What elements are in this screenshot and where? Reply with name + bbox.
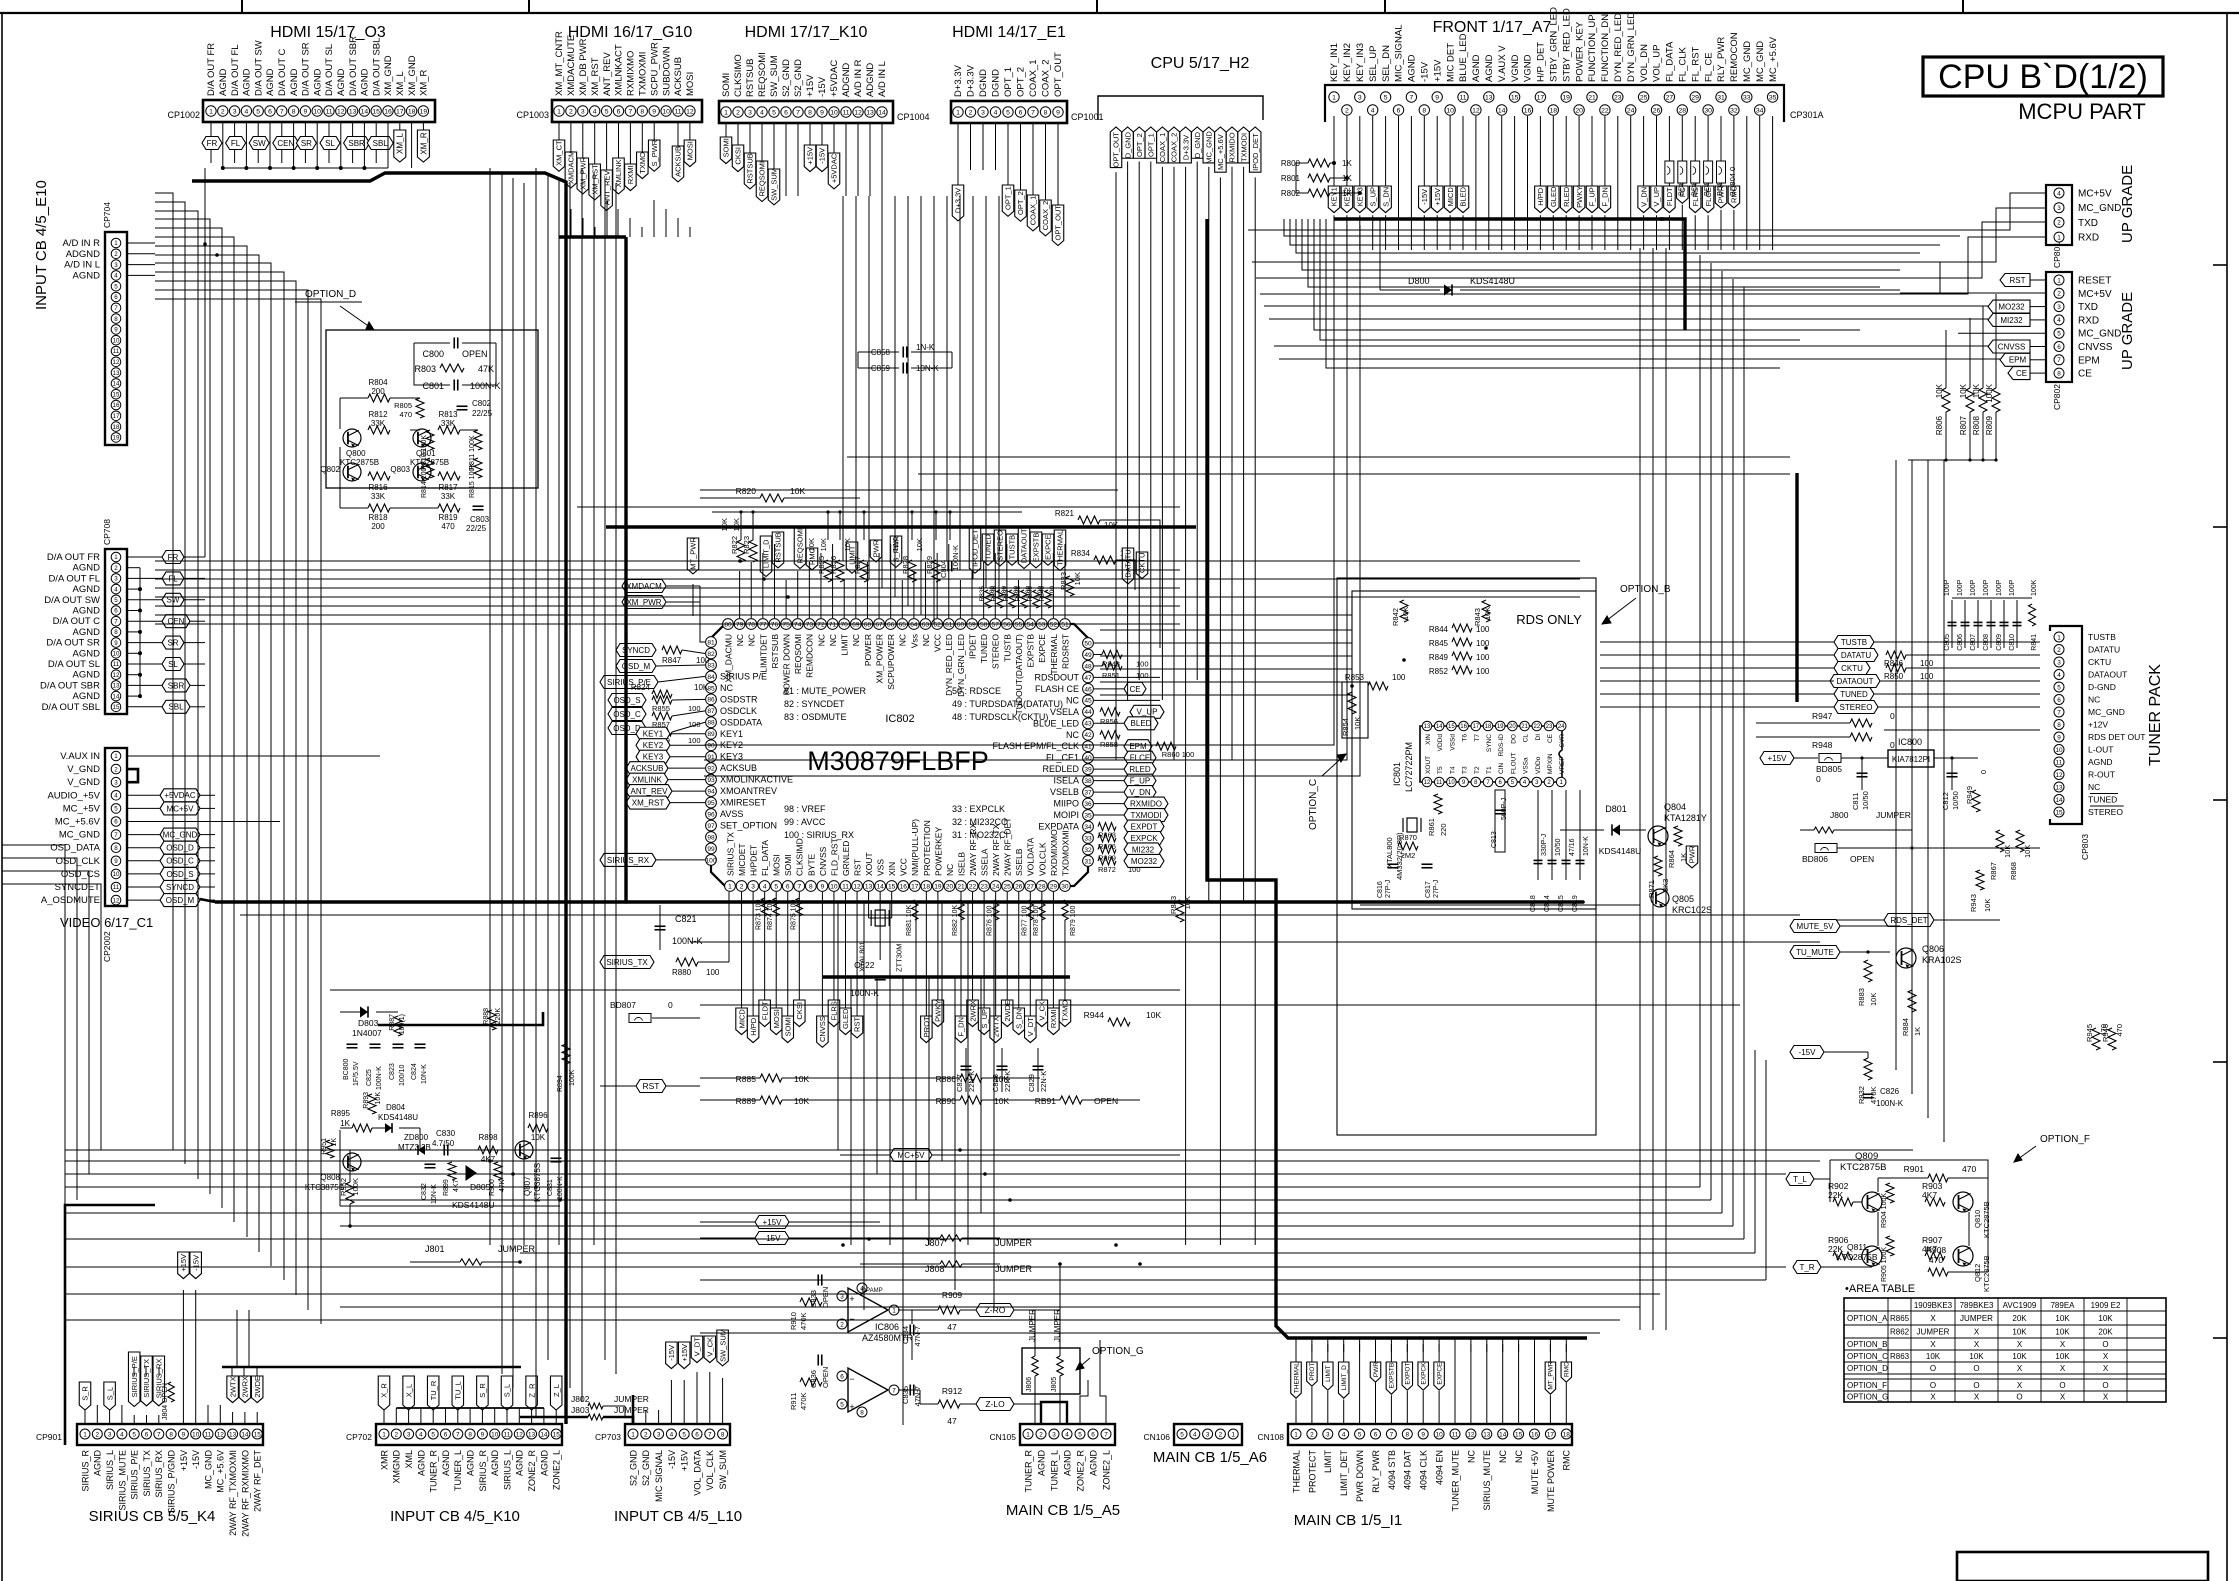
svg-text:SOMI: SOMI xyxy=(722,138,731,157)
node BLED (front) xyxy=(1462,116,1464,186)
svg-text:DI: DI xyxy=(1535,734,1542,741)
svg-text:KDS4148U: KDS4148U xyxy=(1599,846,1642,856)
svg-text:DATAOUT: DATAOUT xyxy=(2088,670,2127,680)
node SR xyxy=(304,122,306,137)
svg-text:4094 DAT: 4094 DAT xyxy=(1403,1450,1413,1490)
node D+3.3V (H2) xyxy=(1180,127,1192,163)
svg-text:10K: 10K xyxy=(2023,845,2032,858)
svg-text:57: 57 xyxy=(992,621,1000,628)
svg-text:CNVSS: CNVSS xyxy=(2078,342,2113,353)
svg-text:SBR: SBR xyxy=(168,681,185,690)
svg-text:EXPSTB: EXPSTB xyxy=(1032,533,1041,563)
svg-text:TUNED: TUNED xyxy=(2088,795,2117,805)
svg-text:MC+5V: MC+5V xyxy=(2078,189,2112,200)
node +5VDAC (CP2002) xyxy=(127,794,160,796)
svg-text:470: 470 xyxy=(441,522,455,531)
resistor R894 100K xyxy=(562,1044,570,1064)
svg-text:R819: R819 xyxy=(438,513,458,522)
node SIRIUS_P/E (cp901) xyxy=(128,1352,140,1407)
svg-text:RDS ONLY: RDS ONLY xyxy=(1516,612,1582,627)
svg-text:OPT_1: OPT_1 xyxy=(1004,186,1013,210)
svg-text:GRNLED: GRNLED xyxy=(841,841,851,876)
svg-text:PWKY: PWKY xyxy=(1575,186,1584,208)
svg-text:100: 100 xyxy=(1920,672,1934,681)
svg-text:OSD_DATA: OSD_DATA xyxy=(50,843,100,854)
svg-text:VSS: VSS xyxy=(876,859,886,876)
svg-text:MT_PWR: MT_PWR xyxy=(1548,1361,1555,1389)
wire thick: vertical trunk B to bottom bus xyxy=(624,237,627,902)
svg-text:X: X xyxy=(1930,1393,1936,1402)
svg-text:NC: NC xyxy=(1514,1450,1524,1463)
svg-text:2: 2 xyxy=(1310,1431,1314,1438)
svg-text:4K7: 4K7 xyxy=(481,1155,496,1164)
node TUSTB (tuner) xyxy=(1834,636,1874,649)
svg-text:DYN_GRN_LED: DYN_GRN_LED xyxy=(956,634,966,697)
svg-text:R889: R889 xyxy=(736,1096,757,1106)
RDS block outline xyxy=(1337,578,1596,1135)
node MOSI xyxy=(689,122,691,140)
svg-text:10K: 10K xyxy=(1401,607,1410,620)
resistor R899 4K7 xyxy=(448,1162,456,1180)
node Z_L (cp702) xyxy=(550,1376,562,1410)
svg-text:OPTION_B: OPTION_B xyxy=(1847,1340,1887,1349)
svg-text:R844: R844 xyxy=(1429,625,1449,634)
inductor BD802 xyxy=(1691,161,1700,183)
svg-text:R909: R909 xyxy=(942,1290,963,1300)
svg-text:OSDSTR: OSDSTR xyxy=(720,694,758,704)
svg-text:14: 14 xyxy=(113,381,120,388)
svg-text:SW_SUM: SW_SUM xyxy=(769,55,780,97)
svg-text:2: 2 xyxy=(2057,291,2061,298)
svg-text:KEY_IN1: KEY_IN1 xyxy=(1329,43,1340,82)
svg-text:S_PWR: S_PWR xyxy=(650,139,659,166)
svg-text:F_UP: F_UP xyxy=(1130,777,1150,786)
svg-text:D/A OUT FR: D/A OUT FR xyxy=(206,43,217,96)
resistor R952 100K xyxy=(346,1182,354,1204)
resistor R823 10K xyxy=(749,540,757,562)
resistor R834 10K xyxy=(1094,556,1116,564)
svg-text:CNVSS: CNVSS xyxy=(818,846,828,876)
node S_DN (front) xyxy=(1385,116,1387,186)
svg-text:46: 46 xyxy=(1084,686,1092,693)
svg-text:28: 28 xyxy=(1679,107,1687,114)
resistor R815 100K xyxy=(474,458,482,478)
svg-text:THERMAL: THERMAL xyxy=(1056,530,1065,566)
svg-text:98 : VREF: 98 : VREF xyxy=(784,804,826,814)
svg-text:LC72722PM: LC72722PM xyxy=(1404,742,1414,792)
svg-text:+5VDAC: +5VDAC xyxy=(830,153,839,183)
svg-text:SOMI: SOMI xyxy=(721,73,732,97)
svg-text:TUSTB: TUSTB xyxy=(1002,634,1012,662)
svg-text:12: 12 xyxy=(337,108,345,115)
wire rds bottom rail xyxy=(1360,904,1640,906)
svg-text:R812: R812 xyxy=(368,410,388,419)
svg-text:87: 87 xyxy=(707,708,715,715)
svg-text:EXPOT: EXPOT xyxy=(1405,1363,1412,1385)
svg-text:PROTECT: PROTECT xyxy=(1307,1450,1317,1494)
transistor Q803 KTC2875B xyxy=(413,463,431,481)
capacitors C818 C814 C815 C819 xyxy=(1537,790,1539,880)
svg-text:TXD: TXD xyxy=(2078,218,2098,229)
svg-text:KTC3875S: KTC3875S xyxy=(533,1163,542,1202)
svg-text:V_CK: V_CK xyxy=(705,1337,714,1357)
inductor BD801 xyxy=(1678,161,1687,183)
resistor R821 10K xyxy=(1078,516,1100,524)
svg-text:AGND: AGND xyxy=(265,68,276,96)
svg-text:470: 470 xyxy=(2115,1024,2124,1037)
svg-text:R858: R858 xyxy=(1100,740,1118,749)
svg-text:D/A OUT SL: D/A OUT SL xyxy=(324,44,335,96)
resistors R873 R874 100 xyxy=(761,898,767,916)
svg-text:10K: 10K xyxy=(1483,607,1492,620)
svg-text:ANT_REV: ANT_REV xyxy=(631,787,669,796)
svg-text:47: 47 xyxy=(947,1416,957,1426)
svg-text:TU_R: TU_R xyxy=(429,1380,438,1400)
svg-text:75: 75 xyxy=(782,621,790,628)
svg-text:1: 1 xyxy=(956,109,960,116)
svg-text:2: 2 xyxy=(1219,1431,1223,1438)
svg-text:C830: C830 xyxy=(436,1129,456,1138)
svg-text:44: 44 xyxy=(1084,709,1092,716)
svg-text:C828: C828 xyxy=(991,1074,1000,1092)
svg-text:D801: D801 xyxy=(1605,804,1627,814)
svg-text:VOLCLK: VOLCLK xyxy=(1037,842,1047,876)
svg-text:10: 10 xyxy=(830,109,838,116)
svg-text:2WAY RF_DET: 2WAY RF_DET xyxy=(1003,818,1013,876)
svg-text:6: 6 xyxy=(1019,109,1023,116)
svg-text:24: 24 xyxy=(1627,107,1635,114)
node RDS_DET (tuner) xyxy=(1884,914,1934,927)
svg-text:R896: R896 xyxy=(528,1111,548,1120)
svg-text:1F/5.5V: 1F/5.5V xyxy=(353,1061,360,1086)
svg-text:15: 15 xyxy=(1511,94,1519,101)
svg-text:EXPCK: EXPCK xyxy=(1421,1362,1428,1385)
svg-text:FLASH EPM/FL_CLK: FLASH EPM/FL_CLK xyxy=(992,741,1079,751)
svg-text:RDS-ID: RDS-ID xyxy=(1498,734,1505,757)
node CNVSS (ic bottom) xyxy=(821,892,823,1016)
svg-text:ZTT30M: ZTT30M xyxy=(895,944,904,972)
svg-text:4: 4 xyxy=(2057,190,2061,197)
capacitor C822 100N-K xyxy=(875,975,886,977)
svg-text:2: 2 xyxy=(740,883,744,890)
resistor R843 10K vertical xyxy=(1176,900,1184,922)
svg-text:12: 12 xyxy=(1424,780,1431,786)
svg-text:D-GND: D-GND xyxy=(2088,682,2116,692)
wire bus: lines under RDS block to CN108 area xyxy=(1300,1149,1680,1151)
svg-text:18: 18 xyxy=(1563,1431,1571,1438)
node EXPCE (cn108) xyxy=(1434,1362,1445,1390)
node PWR (front) xyxy=(1720,116,1722,186)
node S_PWR xyxy=(653,122,655,140)
node EPM (ic) xyxy=(1124,740,1152,753)
svg-text:KEY3: KEY3 xyxy=(643,753,664,762)
node 2WTX (ic bottom) xyxy=(995,892,997,1016)
svg-text:100P: 100P xyxy=(1957,579,1964,596)
transistor Q808 KTC3875S xyxy=(343,1153,361,1171)
node XM_R xyxy=(422,122,424,130)
node SOMI (ic bottom) xyxy=(787,892,789,1016)
svg-text:1: 1 xyxy=(1231,1431,1235,1438)
node SBR xyxy=(352,122,354,137)
svg-text:12: 12 xyxy=(1472,107,1480,114)
OPTION_G box with jumpers xyxy=(1022,1348,1080,1394)
svg-text:R850: R850 xyxy=(1884,672,1904,681)
resistor R880 100 xyxy=(676,958,698,966)
node XMLINK xyxy=(618,122,620,158)
svg-text:EPM: EPM xyxy=(1129,742,1147,751)
svg-text:SIRIUS P/E: SIRIUS P/E xyxy=(720,671,767,681)
svg-text:81 : MUTE_POWER: 81 : MUTE_POWER xyxy=(784,686,867,696)
svg-text:10: 10 xyxy=(1436,1431,1444,1438)
node THERMAL (cn108) xyxy=(1291,1362,1302,1398)
node MI232 (cp802) xyxy=(1988,313,2030,326)
svg-text:XIN: XIN xyxy=(887,862,897,876)
svg-text:Q800: Q800 xyxy=(346,449,366,458)
svg-text:100N-K: 100N-K xyxy=(672,936,703,946)
svg-text:SR: SR xyxy=(301,139,312,148)
node FR (CP708) xyxy=(127,556,162,558)
resistor R833 10K xyxy=(1066,576,1074,596)
svg-text:2: 2 xyxy=(114,565,118,572)
svg-text:CE: CE xyxy=(2016,369,2027,378)
transistor Q810 KTC2875B xyxy=(1953,1192,1973,1212)
svg-text:X: X xyxy=(2017,1340,2023,1349)
svg-text:33 : EXPCLK: 33 : EXPCLK xyxy=(952,804,1005,814)
svg-text:4: 4 xyxy=(2057,317,2061,324)
svg-text:10K: 10K xyxy=(694,683,709,692)
svg-text:OPT_1: OPT_1 xyxy=(1003,67,1014,97)
diode D804 KDS4148U xyxy=(385,1123,392,1133)
svg-text:10/50: 10/50 xyxy=(1951,791,1960,810)
node CE (cp802) xyxy=(2008,367,2030,380)
svg-text:Q811: Q811 xyxy=(1847,1242,1867,1252)
svg-text:NC: NC xyxy=(898,634,908,646)
wire bus: nested corners from left connectors down the page xyxy=(155,193,173,1150)
svg-text:100K: 100K xyxy=(1985,383,1994,402)
resistor R855 100 xyxy=(652,696,672,704)
svg-text:6: 6 xyxy=(840,1373,844,1380)
svg-text:EXPSTB: EXPSTB xyxy=(1389,1363,1396,1389)
resistor R872 100 xyxy=(1098,857,1116,865)
svg-text:100: 100 xyxy=(696,656,710,665)
svg-text:1: 1 xyxy=(728,883,732,890)
svg-text:−: − xyxy=(849,1314,854,1324)
svg-text:R888: R888 xyxy=(483,1008,490,1025)
resistor J804 OPEN xyxy=(168,1382,174,1402)
svg-text:5: 5 xyxy=(114,597,118,604)
svg-text:2: 2 xyxy=(569,108,573,115)
node EXPCK (ic) xyxy=(1124,831,1164,844)
svg-text:13: 13 xyxy=(113,370,120,377)
node +15V (mid) xyxy=(755,1216,789,1229)
capacitor C826 100N-K xyxy=(1863,1093,1874,1095)
svg-text:D/A OUT FL: D/A OUT FL xyxy=(48,573,100,584)
svg-text:470: 470 xyxy=(399,410,412,419)
svg-text:X_R: X_R xyxy=(380,1383,389,1398)
svg-text:23: 23 xyxy=(980,883,988,890)
svg-text:SCPUPOWER: SCPUPOWER xyxy=(886,634,896,690)
svg-text:R944: R944 xyxy=(1084,1010,1105,1020)
svg-text:INPUT CB 4/5_E10: INPUT CB 4/5_E10 xyxy=(33,180,50,310)
svg-text:7: 7 xyxy=(892,1387,896,1394)
svg-text:SCPU_PWR: SCPU_PWR xyxy=(649,42,660,96)
svg-text:C816: C816 xyxy=(1377,881,1384,898)
svg-text:8: 8 xyxy=(114,316,118,323)
svg-text:C800: C800 xyxy=(422,349,444,359)
svg-text:AGND: AGND xyxy=(73,627,101,638)
svg-text:100P: 100P xyxy=(1983,579,1990,596)
node ANT_REV (ic) xyxy=(626,785,672,798)
svg-text:OPT_OUT: OPT_OUT xyxy=(1053,52,1064,97)
svg-text:DGND: DGND xyxy=(991,69,1002,97)
svg-text:2M2: 2M2 xyxy=(1401,851,1416,860)
thick bus under FRONT connector xyxy=(1334,217,1664,220)
svg-text:MAIN CB 1/5_A5: MAIN CB 1/5_A5 xyxy=(1006,1502,1120,1519)
svg-text:OPAMP: OPAMP xyxy=(861,1288,882,1294)
svg-text:95: 95 xyxy=(707,800,715,807)
node MUTE_5V xyxy=(1790,920,1840,933)
svg-text:2WTX: 2WTX xyxy=(228,1376,237,1397)
svg-text:31: 31 xyxy=(1717,94,1725,101)
svg-text:88: 88 xyxy=(707,720,715,727)
svg-text:76: 76 xyxy=(771,621,779,628)
svg-text:R851: R851 xyxy=(1102,671,1120,680)
svg-text:BD804 0: BD804 0 xyxy=(1728,167,1737,196)
svg-text:5: 5 xyxy=(1180,1431,1184,1438)
svg-text:R865: R865 xyxy=(1890,1314,1910,1323)
svg-text:69: 69 xyxy=(852,621,860,628)
node V_UP (front) xyxy=(1656,116,1658,186)
resistor R908 470 xyxy=(1928,1268,1948,1276)
svg-text:9: 9 xyxy=(820,109,824,116)
svg-text:11: 11 xyxy=(2056,759,2063,766)
svg-text:COAX_1: COAX_1 xyxy=(1029,196,1038,226)
node V_CK (ic bottom) xyxy=(1041,892,1043,1000)
svg-text:LIMIT: LIMIT xyxy=(1323,1450,1333,1474)
svg-text:XM_L: XM_L xyxy=(395,71,406,96)
wire vcc rail above ic xyxy=(712,511,1022,513)
wire CP2002 gnd pins xyxy=(127,769,138,782)
svg-text:TXMODI: TXMODI xyxy=(1130,811,1161,820)
svg-text:1K: 1K xyxy=(331,1138,338,1147)
svg-text:X: X xyxy=(1930,1314,1936,1323)
svg-text:JUMPER: JUMPER xyxy=(1053,1309,1062,1342)
svg-text:ACKSUB: ACKSUB xyxy=(631,764,664,773)
svg-text:D/A OUT SBL: D/A OUT SBL xyxy=(42,702,100,713)
svg-text:99 : AVCC: 99 : AVCC xyxy=(784,817,826,827)
svg-text:J808: J808 xyxy=(925,1264,945,1274)
svg-text:FLASH CE: FLASH CE xyxy=(1035,684,1079,694)
svg-text:AGND: AGND xyxy=(1062,1450,1072,1477)
svg-text:O: O xyxy=(2102,1381,2108,1390)
svg-text:C835: C835 xyxy=(901,1386,910,1404)
svg-text:EXPCK: EXPCK xyxy=(1130,834,1158,843)
svg-text:XM_R: XM_R xyxy=(419,132,428,154)
svg-text:MC_GND: MC_GND xyxy=(1742,41,1753,82)
node FLCE (ic) xyxy=(1124,751,1156,764)
svg-text:FLRS: FLRS xyxy=(830,1001,839,1020)
svg-text:AVSS: AVSS xyxy=(720,809,743,819)
resistor R817 33K xyxy=(438,472,460,480)
svg-text:+5VDAC: +5VDAC xyxy=(829,60,840,97)
svg-text:4094 EN: 4094 EN xyxy=(1435,1450,1445,1485)
node D+3.3V xyxy=(957,123,959,185)
svg-text:Q806: Q806 xyxy=(1922,944,1944,954)
svg-text:FL_DATA: FL_DATA xyxy=(760,840,770,876)
svg-text:SYR: SYR xyxy=(1559,734,1566,748)
svg-text:F_DN: F_DN xyxy=(1601,187,1610,207)
svg-text:CP802: CP802 xyxy=(2052,384,2062,410)
wire thick: FRONT bus corner down xyxy=(1660,219,1685,330)
crystal XTAL800 4M332(20.8P) xyxy=(1407,818,1417,832)
svg-text:SW_SUM: SW_SUM xyxy=(770,168,779,201)
svg-text:19: 19 xyxy=(420,108,428,115)
svg-text:10K: 10K xyxy=(794,1074,809,1084)
svg-text:35: 35 xyxy=(1084,812,1092,819)
resistor R852 100 xyxy=(1452,666,1472,674)
node MICD (ic bottom) xyxy=(741,892,743,1008)
svg-text:MICD: MICD xyxy=(1446,187,1455,207)
svg-text:RLED: RLED xyxy=(1562,186,1571,207)
svg-text:AGND: AGND xyxy=(242,68,253,96)
node RST (ic bottom) xyxy=(856,892,858,1016)
svg-text:8: 8 xyxy=(808,109,812,116)
node FC (front) xyxy=(1681,116,1683,186)
resistor R804 200 xyxy=(368,394,390,402)
svg-text:MC_GND: MC_GND xyxy=(2088,707,2125,717)
svg-text:EXPSTB: EXPSTB xyxy=(1026,634,1036,668)
node +15V (tuner) xyxy=(1760,752,1794,765)
node EXPOT (cn108) xyxy=(1402,1362,1413,1390)
svg-text:100: 100 xyxy=(1392,673,1406,682)
svg-text:XM_GND: XM_GND xyxy=(383,55,394,96)
resistor R819 470 xyxy=(438,504,460,512)
svg-text:XM_L: XM_L xyxy=(396,133,405,154)
node GLED (ic bottom) xyxy=(845,892,847,1008)
svg-text:AGND: AGND xyxy=(515,1450,525,1477)
node EXPSTB (cn108) xyxy=(1386,1362,1397,1394)
node CNVSS (cp802) xyxy=(1988,340,2030,353)
svg-text:8: 8 xyxy=(1044,109,1048,116)
node OPT_1 xyxy=(1007,123,1009,185)
svg-text:T7: T7 xyxy=(1474,734,1481,742)
border tick right 1 xyxy=(2213,264,2227,266)
svg-text:DATAOUT: DATAOUT xyxy=(1020,528,1029,563)
svg-text:AGND: AGND xyxy=(312,68,323,96)
svg-text:O: O xyxy=(2016,1393,2022,1402)
svg-text:19: 19 xyxy=(113,435,120,442)
svg-text:8: 8 xyxy=(114,845,118,852)
node S_DN (ic bottom) xyxy=(1018,892,1020,1008)
svg-text:O: O xyxy=(1930,1381,1936,1390)
svg-text:FLDT: FLDT xyxy=(1665,187,1674,206)
node V_DN (front) xyxy=(1643,116,1645,186)
svg-text:LIMIT: LIMIT xyxy=(1325,1365,1332,1382)
svg-text:28: 28 xyxy=(1038,883,1046,890)
svg-text:21: 21 xyxy=(1588,94,1596,101)
capacitor C816 27P-J xyxy=(1388,863,1399,865)
resistor R803 47K xyxy=(440,364,464,372)
svg-text:VGND: VGND xyxy=(1510,54,1521,82)
svg-text:CP2002: CP2002 xyxy=(102,931,112,962)
svg-text:XMIRESET: XMIRESET xyxy=(720,798,767,808)
svg-text:D804: D804 xyxy=(386,1103,406,1112)
svg-text:22N-K: 22N-K xyxy=(1003,1071,1012,1092)
svg-text:C803: C803 xyxy=(470,515,490,524)
capacitor bank C805-C810 100P xyxy=(1951,600,1953,648)
resistor R947 0 xyxy=(1850,719,1872,727)
svg-text:OPEN: OPEN xyxy=(462,349,488,359)
